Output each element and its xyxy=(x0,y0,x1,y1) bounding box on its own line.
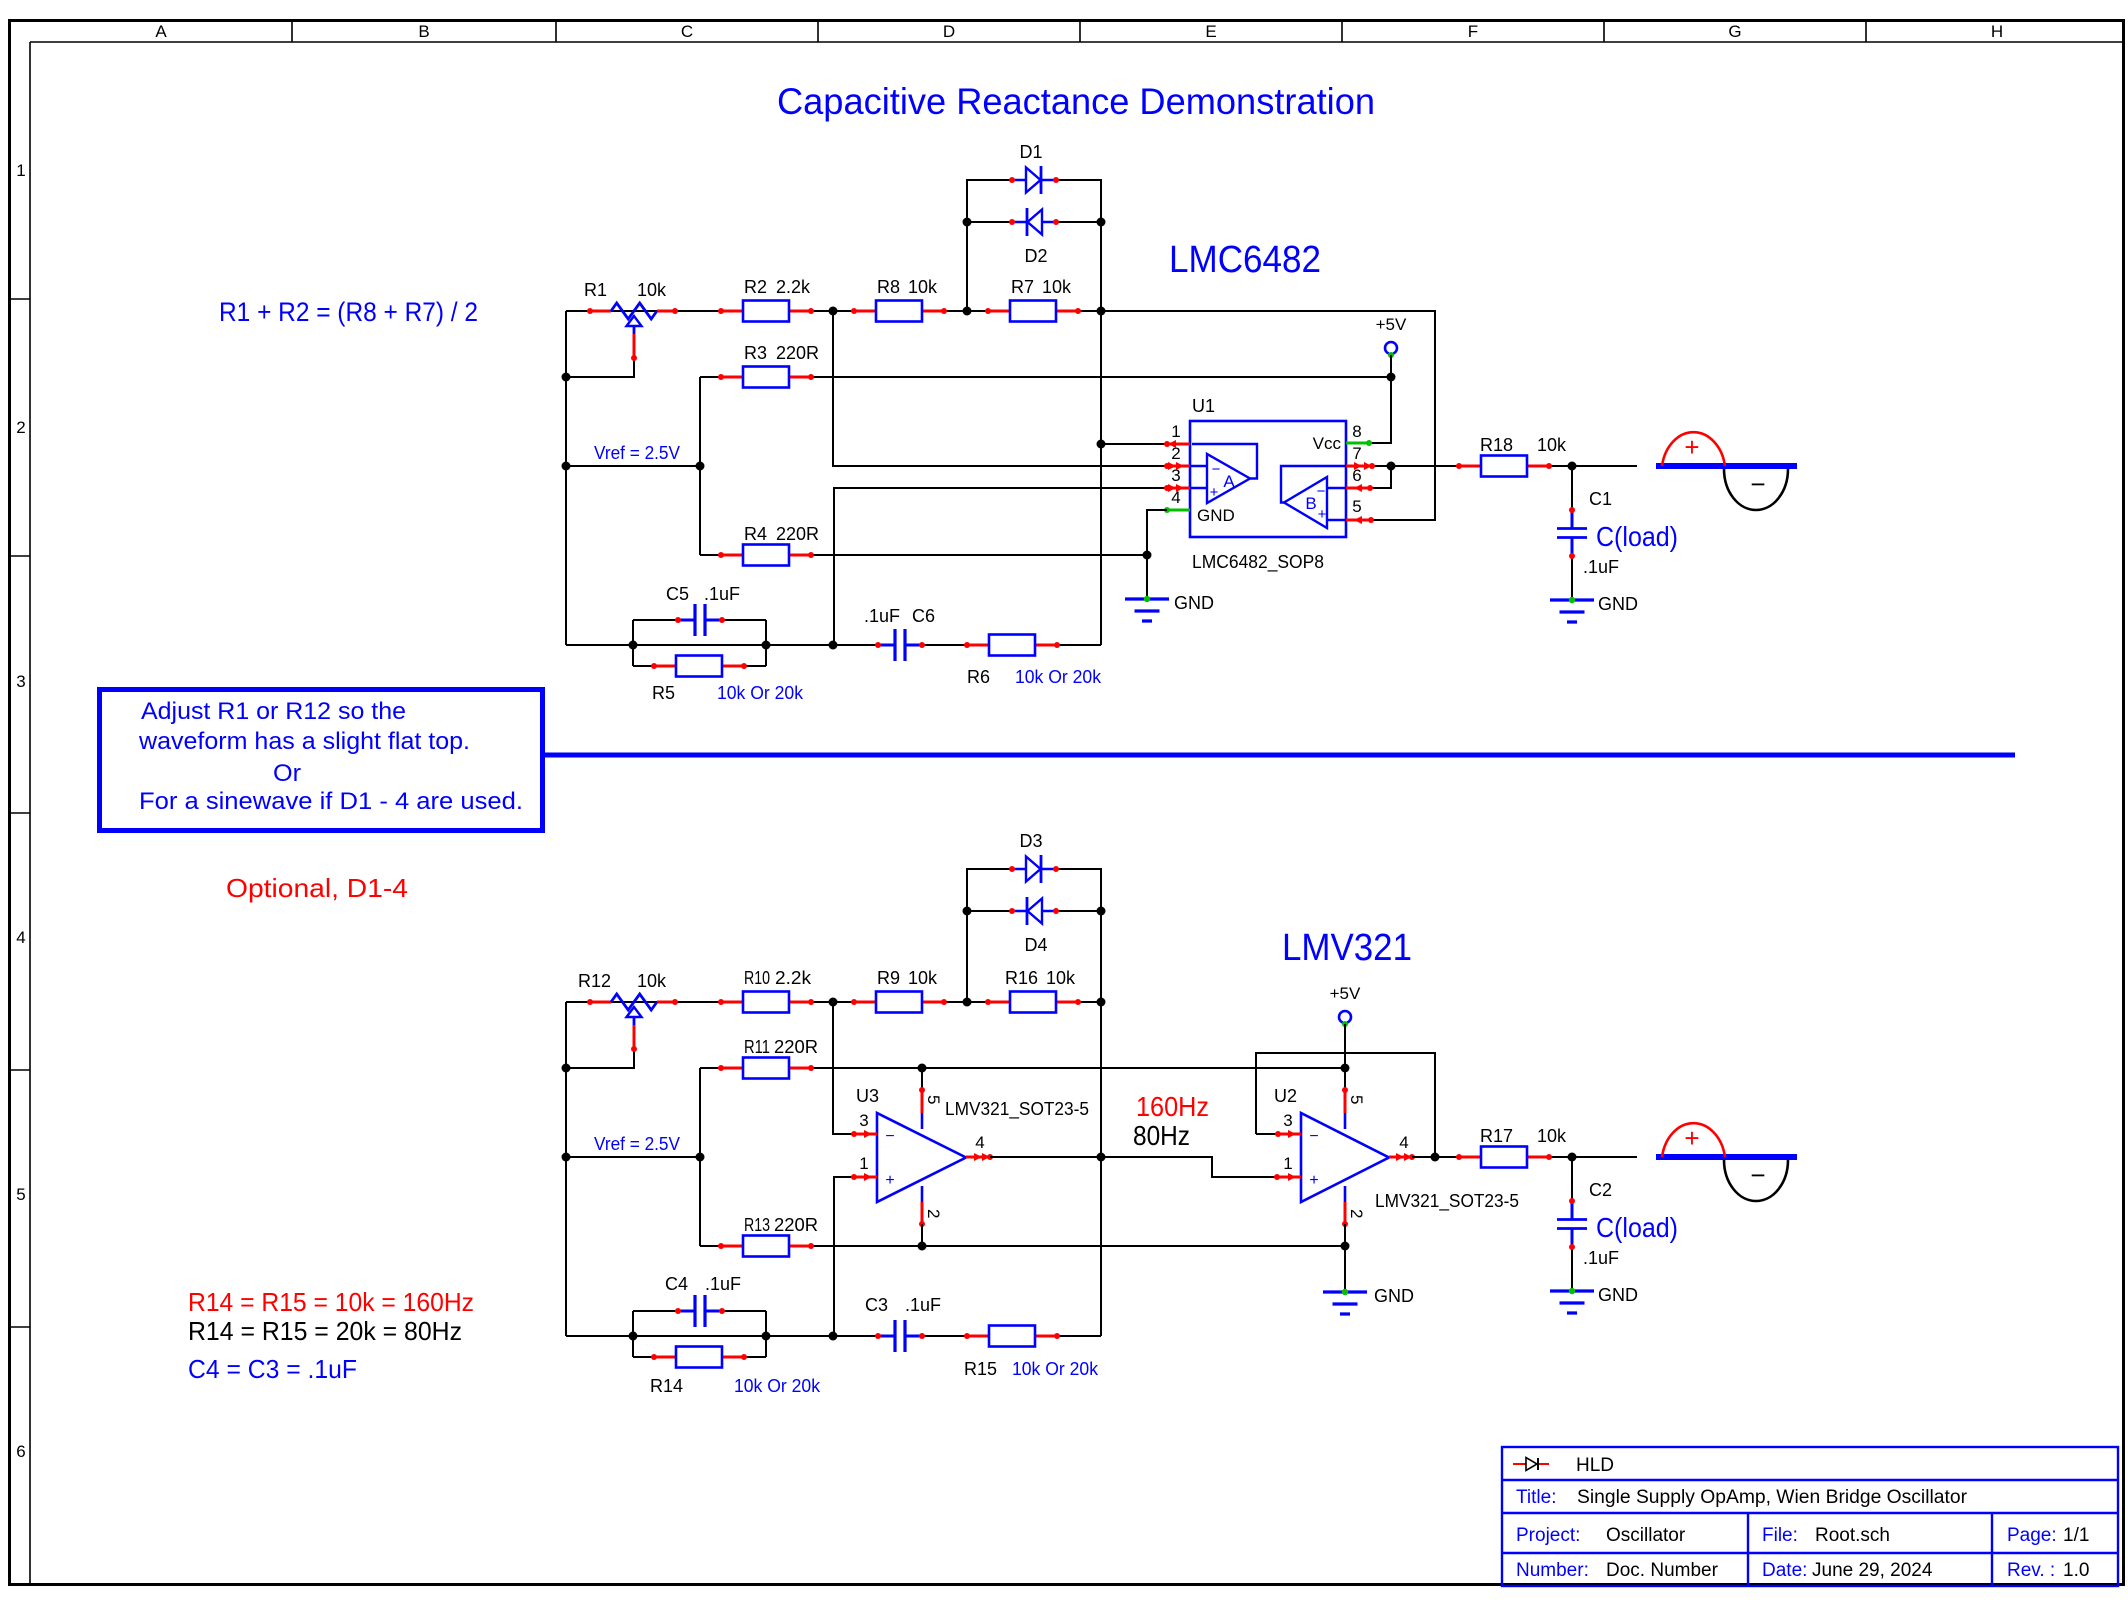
node: R13 end junction at U2 pin2 xyxy=(1341,1242,1350,1251)
svg-text:R1 + R2 = (R8 + R7) / 2: R1 + R2 = (R8 + R7) / 2 xyxy=(219,297,478,327)
svg-text:File:: File: xyxy=(1762,1525,1798,1546)
resistor R4 xyxy=(721,554,811,557)
pin 8 green stub xyxy=(1346,442,1369,445)
U3 pin 3 red stub xyxy=(854,1133,877,1136)
svg-text:10k: 10k xyxy=(1042,277,1072,297)
svg-text:A: A xyxy=(1223,472,1235,491)
U3 output pin 4 xyxy=(966,1156,990,1159)
svg-text:8: 8 xyxy=(1352,422,1361,441)
wire: C4 branch xyxy=(633,1310,680,1312)
node: R3 to +5V junction xyxy=(1387,373,1396,382)
svg-text:220R: 220R xyxy=(776,343,819,363)
svg-text:waveform has a slight flat top: waveform has a slight flat top. xyxy=(138,728,470,755)
resistor R8 xyxy=(854,310,944,313)
node: pin2 junction on R13 row xyxy=(918,1242,927,1251)
wire: R14 branch xyxy=(633,1356,766,1358)
svg-text:10k: 10k xyxy=(908,277,938,297)
svg-text:5: 5 xyxy=(1347,1095,1366,1104)
svg-text:6: 6 xyxy=(16,1442,25,1461)
svg-text:2: 2 xyxy=(924,1209,943,1218)
resistor R16 xyxy=(988,1001,1078,1004)
resistor R17 xyxy=(1459,1156,1549,1159)
svg-text:D3: D3 xyxy=(1019,831,1042,851)
node: U3 output junction on vertical bus xyxy=(1097,1153,1106,1162)
svg-text:7: 7 xyxy=(1352,444,1361,463)
svg-text:+: + xyxy=(1210,484,1219,501)
svg-text:.1uF: .1uF xyxy=(1583,557,1619,577)
svg-text:2.2k: 2.2k xyxy=(776,277,811,297)
U2 output pin 4 xyxy=(1389,1156,1412,1159)
+5V supply upper xyxy=(1385,342,1397,354)
svg-text:HLD: HLD xyxy=(1576,1455,1614,1476)
U2 pin 2 stub xyxy=(1344,1186,1347,1202)
resistor R6 xyxy=(967,644,1057,647)
svg-text:Doc. Number: Doc. Number xyxy=(1606,1560,1719,1581)
svg-text:+5V: +5V xyxy=(1376,315,1407,334)
svg-text:6: 6 xyxy=(1352,466,1361,485)
svg-text:5: 5 xyxy=(924,1095,943,1104)
svg-text:LMV321_SOT23-5: LMV321_SOT23-5 xyxy=(1375,1191,1519,1212)
svg-text:D2: D2 xyxy=(1024,246,1047,266)
svg-text:GND: GND xyxy=(1598,594,1638,614)
U3 pin 5 stub xyxy=(921,1068,923,1090)
svg-text:+: + xyxy=(1684,1123,1699,1153)
wire: D2 branch xyxy=(967,221,1101,223)
svg-text:1.0: 1.0 xyxy=(2063,1560,2089,1581)
wire: C5 branch xyxy=(633,619,680,621)
svg-text:Or: Or xyxy=(273,760,301,787)
svg-text:4: 4 xyxy=(975,1133,984,1152)
node: pin1 junction on output bus xyxy=(1097,440,1106,449)
node: C5/R5 left xyxy=(629,641,638,650)
svg-text:R14 = R15 = 10k = 160Hz: R14 = R15 = 10k = 160Hz xyxy=(188,1287,474,1317)
pin 5 red stub xyxy=(1346,519,1371,522)
svg-text:.1uF: .1uF xyxy=(704,584,740,604)
node: R7 output junction (diode loop right) xyxy=(1097,307,1106,316)
node: Vref-left rail junction lower xyxy=(562,1153,571,1162)
svg-text:1/1: 1/1 xyxy=(2063,1525,2089,1546)
svg-text:3: 3 xyxy=(16,672,25,691)
svg-text:B: B xyxy=(1305,494,1316,513)
pin 2 red stub xyxy=(1167,465,1190,468)
U2 pin 3 red stub xyxy=(1256,1133,1278,1135)
svg-text:R14 = R15 = 20k = 80Hz: R14 = R15 = 20k = 80Hz xyxy=(188,1316,462,1346)
wire: upper bottom rail xyxy=(566,644,880,646)
svg-text:10k: 10k xyxy=(1046,968,1076,988)
svg-text:R2: R2 xyxy=(744,277,767,297)
svg-text:R11: R11 xyxy=(744,1037,770,1057)
ground below C2 xyxy=(1550,1291,1594,1313)
capacitor C6 xyxy=(878,644,922,647)
U3 pin 1 red stub xyxy=(854,1176,877,1179)
wire: vertical Vref bus lower xyxy=(699,1068,701,1246)
svg-text:C(load): C(load) xyxy=(1596,521,1678,552)
svg-text:R16: R16 xyxy=(1005,968,1038,988)
sine output symbol lower xyxy=(1656,1154,1797,1160)
svg-text:−: − xyxy=(1212,461,1221,478)
svg-text:Adjust R1 or R12 so the: Adjust R1 or R12 so the xyxy=(141,698,406,725)
wire: R5 branch xyxy=(633,665,766,667)
pin 4 green stub and GND trace xyxy=(1167,509,1190,512)
resistor R10 xyxy=(721,1001,811,1004)
svg-text:Rev. :: Rev. : xyxy=(2007,1560,2055,1581)
svg-text:10k: 10k xyxy=(637,280,667,300)
svg-text:Page:: Page: xyxy=(2007,1525,2057,1546)
svg-text:220R: 220R xyxy=(774,1215,818,1235)
sine output symbol upper xyxy=(1656,463,1797,469)
svg-text:G: G xyxy=(1728,22,1741,41)
diode D2 xyxy=(1012,221,1056,224)
svg-text:Vcc: Vcc xyxy=(1313,434,1342,453)
node: bottom rail / pin3 riser junction xyxy=(829,641,838,650)
node: pin7 junction xyxy=(1387,462,1396,471)
wire: lower left vertical xyxy=(565,1002,567,1336)
note box xyxy=(100,690,543,831)
wire: R11 row to U2 +5V junction xyxy=(700,1067,1345,1069)
wire: C4/R14 loop verticals xyxy=(632,1311,634,1357)
svg-text:C(load): C(load) xyxy=(1596,1212,1678,1243)
svg-text:LMV321: LMV321 xyxy=(1282,927,1412,969)
svg-text:−: − xyxy=(1750,469,1765,499)
svg-text:B: B xyxy=(418,22,429,41)
svg-text:Vref = 2.5V: Vref = 2.5V xyxy=(594,1134,680,1154)
svg-text:Capacitive Reactance Demonstra: Capacitive Reactance Demonstration xyxy=(777,81,1375,122)
wire: R10/R9 node down to U3 pin 3 xyxy=(833,1002,854,1134)
resistor R2 xyxy=(721,310,811,313)
svg-text:C2: C2 xyxy=(1589,1180,1612,1200)
svg-text:For a sinewave if D1 - 4 are u: For a sinewave if D1 - 4 are used. xyxy=(139,788,523,815)
svg-text:R4: R4 xyxy=(744,524,767,544)
pin 7 red stub xyxy=(1346,465,1372,468)
wire: C5/R5 loop xyxy=(633,620,766,666)
svg-text:10k Or 20k: 10k Or 20k xyxy=(1012,1359,1099,1379)
svg-text:R17: R17 xyxy=(1480,1126,1513,1146)
svg-text:R9: R9 xyxy=(877,968,900,988)
resistor R18 xyxy=(1459,465,1549,468)
resistor R15 xyxy=(967,1335,1057,1338)
node: C5/R5 right xyxy=(762,641,771,650)
node: D2 right junction xyxy=(1097,218,1106,227)
wire: lower main horizontal rail xyxy=(566,1001,1101,1003)
svg-text:1: 1 xyxy=(1283,1154,1292,1173)
svg-text:1: 1 xyxy=(859,1154,868,1173)
node: Vref bus junction xyxy=(696,462,705,471)
capacitor C2 (load) xyxy=(1571,1201,1574,1247)
wire: lower bottom rail xyxy=(566,1335,880,1337)
wire: Vref stub lower xyxy=(566,1156,700,1158)
potentiometer R12 xyxy=(590,1001,675,1004)
wire: C3 node up to U3 pin 1 xyxy=(834,1177,854,1336)
node: R4 end junction xyxy=(1143,551,1152,560)
node: pin5 junction on R11 row xyxy=(918,1064,927,1073)
svg-text:Vref = 2.5V: Vref = 2.5V xyxy=(594,443,680,463)
svg-text:Optional, D1-4: Optional, D1-4 xyxy=(226,873,408,903)
svg-text:10k Or 20k: 10k Or 20k xyxy=(717,683,804,703)
diode D1 xyxy=(1012,179,1056,182)
wire: +5V vertical to Vcc xyxy=(1369,355,1391,443)
svg-text:4: 4 xyxy=(1399,1133,1408,1152)
svg-text:F: F xyxy=(1468,22,1478,41)
svg-text:+: + xyxy=(1309,1172,1318,1189)
+5V supply lower xyxy=(1339,1011,1351,1023)
svg-text:R13: R13 xyxy=(744,1215,770,1235)
blue divider line xyxy=(543,753,2015,758)
svg-text:R5: R5 xyxy=(652,683,675,703)
wire: vertical Vref bus x=700 xyxy=(699,377,701,555)
svg-text:Oscillator: Oscillator xyxy=(1606,1525,1686,1546)
resistor R7 xyxy=(988,310,1078,313)
svg-text:D1: D1 xyxy=(1019,142,1042,162)
wire: R12 wiper to left rail xyxy=(566,1049,634,1068)
svg-text:GND: GND xyxy=(1174,593,1214,613)
svg-text:U3: U3 xyxy=(856,1086,879,1106)
svg-text:2: 2 xyxy=(16,418,25,437)
svg-text:C: C xyxy=(681,22,693,41)
node: wiper-left rail junction xyxy=(562,373,571,382)
wire: output bus vertical x=1101 xyxy=(1100,311,1102,645)
wire: U3 output step to U2 pin1 xyxy=(1101,1157,1277,1177)
wire: U2 feedback loop xyxy=(1256,1053,1435,1157)
resistor R11 xyxy=(721,1067,811,1070)
pin 1 red stub xyxy=(1167,443,1190,446)
svg-text:Title:: Title: xyxy=(1516,1487,1556,1508)
svg-text:2: 2 xyxy=(1347,1209,1366,1218)
svg-text:A: A xyxy=(155,22,167,41)
svg-text:10k: 10k xyxy=(908,968,938,988)
wire: output row to sine lower xyxy=(1435,1156,1637,1158)
svg-text:3: 3 xyxy=(1283,1111,1292,1130)
svg-text:R15: R15 xyxy=(964,1359,997,1379)
node: R2-R8 junction xyxy=(829,307,838,316)
capacitor C4 xyxy=(678,1310,722,1313)
svg-text:C1: C1 xyxy=(1589,489,1612,509)
svg-text:10k: 10k xyxy=(1537,435,1567,455)
svg-text:−: − xyxy=(1317,483,1326,500)
capacitor C3 xyxy=(878,1335,922,1338)
capacitor C1 (load) xyxy=(1571,510,1574,556)
diode D3 xyxy=(1012,868,1056,871)
svg-text:LMC6482: LMC6482 xyxy=(1169,239,1321,281)
op-amp U2 triangle xyxy=(1301,1113,1389,1202)
node: C4/R14 right xyxy=(762,1332,771,1341)
svg-text:C3: C3 xyxy=(865,1295,888,1315)
wire: C1 vertical xyxy=(1571,466,1573,512)
wire: +5V vertical to U2 pin 5 xyxy=(1344,1024,1346,1090)
wire: pin6 to pin7 junction xyxy=(1370,466,1391,488)
op-amp U3 triangle xyxy=(877,1113,966,1202)
wire: upper left vertical xyxy=(565,311,567,645)
node: R10-R9 junction xyxy=(829,998,838,1007)
svg-text:Date:: Date: xyxy=(1762,1560,1807,1581)
svg-text:10k Or 20k: 10k Or 20k xyxy=(734,1376,821,1396)
svg-text:U1: U1 xyxy=(1192,396,1215,416)
resistor R13 xyxy=(721,1245,811,1248)
node: R18 output / C1 junction xyxy=(1568,462,1577,471)
wire: R1 wiper to left rail xyxy=(566,358,634,377)
svg-text:Single Supply OpAmp, Wien Brid: Single Supply OpAmp, Wien Bridge Oscilla… xyxy=(1577,1487,1968,1508)
wire: lower bus vertical x=1101 xyxy=(1100,1002,1102,1336)
node: D4 right junction xyxy=(1097,907,1106,916)
wire: pin7 output row to sine xyxy=(1372,465,1637,467)
wire: upper main horizontal rail xyxy=(566,310,1435,312)
svg-text:5: 5 xyxy=(1352,497,1361,516)
svg-text:R7: R7 xyxy=(1011,277,1034,297)
svg-text:June 29, 2024: June 29, 2024 xyxy=(1812,1560,1933,1581)
svg-text:GND: GND xyxy=(1197,506,1235,525)
svg-text:.1uF: .1uF xyxy=(905,1295,941,1315)
svg-text:2.2k: 2.2k xyxy=(775,968,812,988)
svg-text:4: 4 xyxy=(16,928,25,947)
svg-text:1: 1 xyxy=(1171,422,1180,441)
svg-text:R1: R1 xyxy=(584,280,607,300)
svg-text:3: 3 xyxy=(859,1111,868,1130)
svg-text:+: + xyxy=(885,1172,894,1189)
op-amp U1 (LMC6482 dual) xyxy=(1190,421,1346,537)
U2 pin 1 red stub xyxy=(1277,1176,1301,1179)
svg-text:.1uF: .1uF xyxy=(864,606,900,626)
capacitor C5 xyxy=(678,619,722,622)
node: R11 end junction at +5V xyxy=(1341,1064,1350,1073)
node: R8-R7 junction (diode loop left) xyxy=(963,307,972,316)
title block xyxy=(1502,1447,2118,1586)
svg-text:C4: C4 xyxy=(665,1274,688,1294)
svg-text:R14: R14 xyxy=(650,1376,683,1396)
svg-text:−: − xyxy=(1750,1160,1765,1190)
wire: R4 row xyxy=(700,554,1147,556)
svg-text:10k: 10k xyxy=(637,971,667,991)
svg-text:80Hz: 80Hz xyxy=(1133,1120,1190,1151)
svg-text:10k: 10k xyxy=(1537,1126,1567,1146)
wire: U1 pin1 stub from output bus xyxy=(1101,443,1167,445)
svg-text:+5V: +5V xyxy=(1330,984,1361,1003)
svg-text:U2: U2 xyxy=(1274,1086,1297,1106)
resistor R5 xyxy=(654,665,744,668)
svg-text:220R: 220R xyxy=(776,524,819,544)
svg-text:.1uF: .1uF xyxy=(705,1274,741,1294)
svg-text:+: + xyxy=(1684,432,1699,462)
pin 3 red stub xyxy=(1167,487,1190,490)
wire: C2 vertical xyxy=(1571,1157,1573,1203)
svg-text:Root.sch: Root.sch xyxy=(1815,1525,1890,1546)
svg-text:5: 5 xyxy=(16,1185,25,1204)
svg-text:.1uF: .1uF xyxy=(1583,1248,1619,1268)
potentiometer R1 xyxy=(590,310,675,313)
svg-text:R8: R8 xyxy=(877,277,900,297)
node: Vref-left rail junction xyxy=(562,462,571,471)
node: D4 left junction xyxy=(963,907,972,916)
node: R12 wiper junction xyxy=(562,1064,571,1073)
svg-text:C4 = C3 = .1uF: C4 = C3 = .1uF xyxy=(188,1354,357,1384)
svg-text:LMC6482_SOP8: LMC6482_SOP8 xyxy=(1192,552,1324,573)
resistor R9 xyxy=(854,1001,944,1004)
svg-text:Number:: Number: xyxy=(1516,1560,1589,1581)
wire: R3 row to +5V vertical xyxy=(700,376,1391,378)
svg-text:R10: R10 xyxy=(744,968,770,988)
svg-text:LMV321_SOT23-5: LMV321_SOT23-5 xyxy=(945,1099,1089,1120)
svg-text:R6: R6 xyxy=(967,667,990,687)
wire: R2/R8 node down to U1 pin 2 xyxy=(833,311,1167,466)
wire: C6 node up to U1 pin 3 xyxy=(834,488,1167,645)
wire: output bus right vertical (to pin5 row) xyxy=(1101,311,1435,520)
svg-text:Project:: Project: xyxy=(1516,1525,1580,1546)
resistor R14 xyxy=(654,1356,744,1359)
svg-text:R12: R12 xyxy=(578,971,611,991)
svg-text:160Hz: 160Hz xyxy=(1136,1091,1209,1122)
node: D2 left junction xyxy=(963,218,972,227)
resistor R3 xyxy=(721,376,811,379)
logo diode HLD xyxy=(1513,1463,1549,1465)
node: R17 output / C2 junction xyxy=(1568,1153,1577,1162)
node: C4/R14 left xyxy=(629,1332,638,1341)
node: Vref bus junction lower xyxy=(696,1153,705,1162)
wire: R13 row xyxy=(699,1245,701,1247)
svg-text:GND: GND xyxy=(1598,1285,1638,1305)
wire: diode loop xyxy=(967,180,1101,311)
svg-text:GND: GND xyxy=(1374,1286,1414,1306)
svg-text:C5: C5 xyxy=(666,584,689,604)
diode D4 xyxy=(1012,910,1056,913)
pin 6 red stub xyxy=(1346,487,1370,490)
node: R16 output junction (diode loop right) xyxy=(1097,998,1106,1007)
svg-text:E: E xyxy=(1205,22,1216,41)
svg-text:+: + xyxy=(1318,506,1327,523)
svg-text:D: D xyxy=(943,22,955,41)
svg-text:C6: C6 xyxy=(912,606,935,626)
wire: D4 branch xyxy=(967,910,1101,912)
node: R9-R16 junction (diode loop left) xyxy=(963,998,972,1007)
ground below U2 xyxy=(1323,1292,1367,1314)
U3 pin 2 stub xyxy=(921,1186,924,1202)
wire: lower diode loop xyxy=(967,869,1101,1002)
wire: Vref stub xyxy=(566,465,700,467)
node: bottom rail / pin1 riser junction lower xyxy=(829,1332,838,1341)
svg-text:220R: 220R xyxy=(774,1037,818,1057)
node: U2 output junction xyxy=(1431,1153,1440,1162)
svg-text:D4: D4 xyxy=(1024,935,1047,955)
svg-text:R18: R18 xyxy=(1480,435,1513,455)
svg-text:−: − xyxy=(885,1128,894,1145)
svg-text:R3: R3 xyxy=(744,343,767,363)
svg-text:10k Or 20k: 10k Or 20k xyxy=(1015,667,1102,687)
svg-text:1: 1 xyxy=(16,161,25,180)
svg-text:−: − xyxy=(1309,1128,1318,1145)
ground symbol below U1 xyxy=(1125,599,1169,621)
U2 pin 5 stub xyxy=(1344,1090,1347,1113)
ground symbol below C1 xyxy=(1550,600,1594,622)
svg-text:H: H xyxy=(1991,22,2003,41)
